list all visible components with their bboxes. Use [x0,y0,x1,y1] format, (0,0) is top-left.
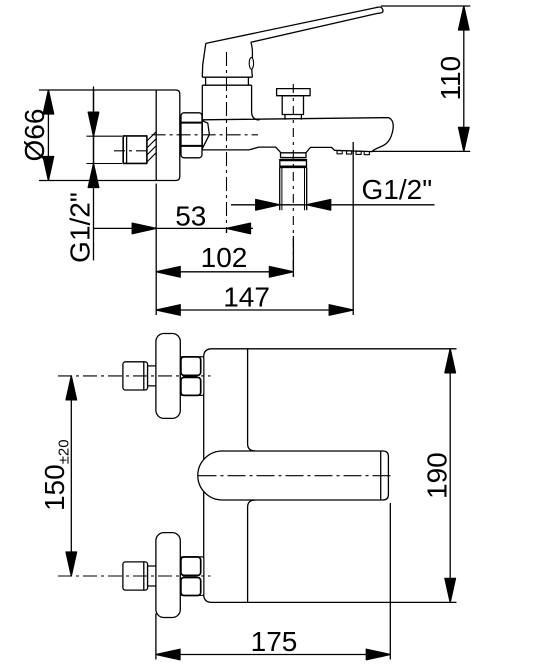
shower outlet pipe G1/2 [280,168,307,210]
svg-text:190: 190 [422,452,453,499]
dim G1/2 left (vertical line, arrows at pipe) [87,87,123,261]
dim 110 [372,6,471,151]
dim 175 [156,503,390,660]
centerline body vertical [226,52,228,233]
top mount: nut [180,357,203,396]
dim Ø66 [43,90,54,181]
svg-text:175: 175 [251,626,298,657]
handle neck [202,42,252,77]
svg-text:110: 110 [435,56,466,101]
body column [204,349,457,603]
bottom mount: escutcheon [156,533,180,618]
shower outlet flange [281,153,307,158]
inlet thread pipe [123,136,147,164]
bottom mount: nut [180,557,203,596]
body underside [202,147,281,153]
dim 53 [94,184,254,316]
faucet body (side view) [202,85,259,150]
diverter knob [277,89,311,120]
dim G1/2 right (arrows at outlet pipe) [231,200,435,211]
top mount: stub [148,366,157,386]
centerline bottom mount [58,575,211,577]
centerline spout bar [199,475,395,477]
centerline diverter/outlet vertical [292,84,294,277]
top mount: escutcheon [156,334,180,419]
svg-text:102: 102 [201,242,248,273]
spout bar (view from front) [198,451,389,500]
centerline plate horizontal [152,134,258,136]
Ø66 extension line bottom [39,180,94,182]
dim 102 [156,236,293,277]
Ø66 extension line top [39,89,94,91]
svg-text:147: 147 [223,282,270,313]
svg-text:G1/2": G1/2" [362,174,433,205]
spout (side view) [202,118,393,153]
centerline top mount [58,375,211,377]
dim 190 [445,349,456,603]
bottom mount: square fitting [123,562,148,590]
svg-text:Ø66: Ø66 [19,109,50,162]
thread hatch lines [147,132,156,162]
cartridge ring [202,77,252,85]
top mount: square fitting [123,362,148,390]
handle lever [206,7,383,43]
check valve housing behind nut [202,121,209,150]
lever hinge detail [249,58,253,70]
union nut (side view) [181,113,202,158]
wall plate (escutcheon, side view) [94,90,180,181]
svg-text:G1/2": G1/2" [65,192,96,263]
bottom mount: stub [148,566,157,586]
dim 147 [156,142,353,315]
centerline inlet pipe [114,150,150,152]
shower outlet collar [280,159,307,168]
dim 150±20 [66,376,77,576]
svg-text:53: 53 [175,201,206,232]
spray face ticks [337,151,369,155]
